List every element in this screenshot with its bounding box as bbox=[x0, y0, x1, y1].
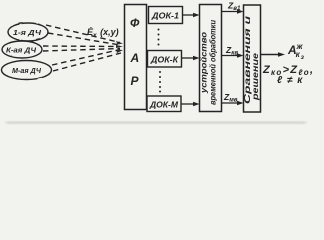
block temporal processing unit bbox=[200, 5, 222, 112]
block FAR (phased array) bbox=[125, 5, 147, 110]
node Ex(x,y) field label bbox=[87, 27, 119, 39]
block DOK-M bbox=[147, 96, 181, 112]
svg-text:решение: решение bbox=[251, 52, 260, 101]
wire DOK-1 to processor bbox=[183, 13, 200, 17]
dots between DOK-1 and DOK-K bbox=[158, 29, 160, 46]
antenna element ellipse 2 (К-ая ДЧ) bbox=[2, 41, 42, 58]
block DOK-1 bbox=[149, 7, 183, 24]
svg-text:ДОК-М: ДОК-М bbox=[149, 101, 178, 110]
wire processor to comparator (Zкв) bbox=[222, 53, 244, 57]
dots between DOK-K and DOK-M bbox=[159, 71, 161, 93]
antenna element ellipse 3 (М-ая ДЧ) bbox=[2, 61, 52, 80]
svg-text:Ф: Ф bbox=[130, 16, 140, 30]
wire processor to comparator (Zмв) bbox=[222, 101, 244, 105]
svg-text:А: А bbox=[130, 51, 140, 65]
antenna element ellipse 1 (1-я ДЧ) bbox=[8, 23, 48, 41]
svg-text:ℓ ≠ к: ℓ ≠ к bbox=[277, 75, 303, 86]
scan artifact smudge bbox=[6, 122, 306, 124]
svg-text:ДОК-К: ДОК-К bbox=[150, 56, 179, 65]
svg-text:К-ая ДЧ: К-ая ДЧ bbox=[6, 46, 37, 55]
svg-text:устройство: устройство bbox=[200, 32, 209, 94]
svg-text:Р: Р bbox=[131, 74, 140, 88]
wire processor to comparator (Zв1) bbox=[222, 9, 244, 13]
wire: dashed rays from elements to array bbox=[43, 25, 121, 71]
svg-text:временной обработки: временной обработки bbox=[209, 20, 218, 105]
block comparison and decision bbox=[244, 5, 261, 112]
svg-text:1-я ДЧ: 1-я ДЧ bbox=[13, 28, 42, 37]
wire output bbox=[261, 52, 285, 57]
wire DOK-M to processor bbox=[181, 102, 200, 106]
wire DOK-K to processor bbox=[182, 56, 200, 60]
svg-text:М-ая ДЧ: М-ая ДЧ bbox=[12, 66, 42, 75]
arrowheads into array bbox=[116, 41, 123, 53]
block DOK-K bbox=[148, 51, 182, 68]
svg-text:ДОК-1: ДОК-1 bbox=[151, 12, 180, 21]
